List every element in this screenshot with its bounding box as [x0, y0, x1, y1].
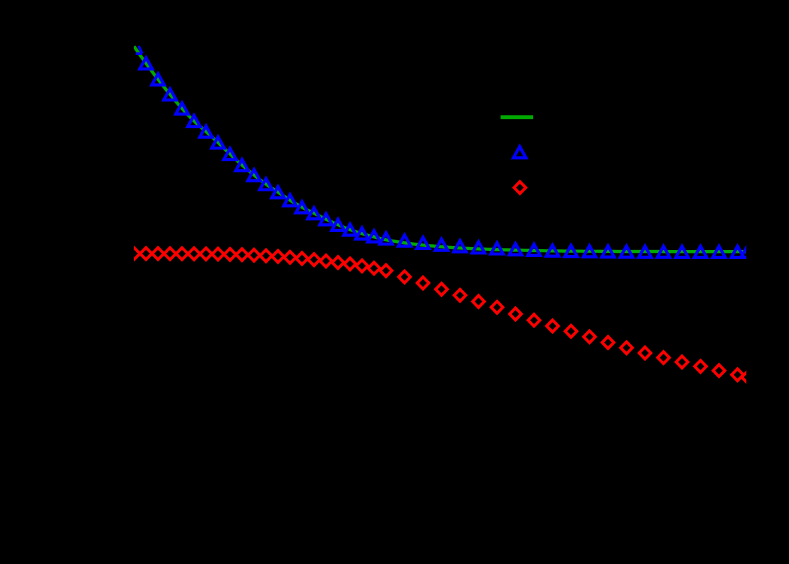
blue triangle marker 12: [260, 179, 273, 190]
blue triangle marker 8: [212, 137, 225, 148]
red diamond marker 42: [742, 371, 754, 383]
red diamond marker 3: [152, 248, 164, 260]
blue triangle marker 36: [639, 246, 652, 257]
legend blue triangle sample: [513, 147, 526, 158]
blue triangle marker 14: [284, 195, 297, 206]
red diamond marker 37: [658, 352, 670, 364]
red diamond marker 4: [164, 248, 176, 260]
red diamond marker 31: [547, 320, 559, 332]
blue triangle marker 32: [565, 245, 578, 256]
blue triangle marker 42: [741, 246, 754, 257]
blue triangle marker 20: [356, 228, 369, 239]
blue triangle marker 15: [296, 202, 309, 213]
red diamond marker 24: [417, 277, 429, 289]
blue triangle marker 4: [164, 89, 177, 100]
blue triangle marker 13: [272, 187, 285, 198]
blue triangle marker 7: [200, 126, 213, 137]
red diamond marker 40: [713, 365, 725, 377]
blue triangle marker 39: [694, 246, 707, 257]
red diamond marker 23: [399, 271, 411, 283]
legend red diamond sample: [514, 182, 526, 194]
red diamond marker 38: [676, 356, 688, 368]
blue triangle marker series: [136, 46, 754, 258]
blue triangle marker 23: [398, 235, 411, 246]
blue triangle marker 5: [176, 103, 189, 114]
red diamond marker 27: [473, 296, 485, 308]
blue triangle marker 40: [713, 246, 726, 257]
red diamond marker 11: [248, 249, 260, 261]
red diamond marker 10: [236, 249, 248, 261]
blue triangle marker 10: [236, 159, 249, 170]
red diamond marker 22: [380, 265, 392, 277]
blue triangle marker 35: [620, 246, 633, 257]
red diamond marker 29: [510, 308, 522, 320]
red diamond marker 39: [695, 360, 707, 372]
legend green line sample: [501, 115, 533, 119]
blue triangle marker 38: [676, 246, 689, 257]
blue triangle marker 33: [583, 246, 596, 257]
red diamond marker 6: [188, 248, 200, 260]
red diamond marker 34: [602, 337, 614, 349]
blue triangle marker 29: [509, 244, 522, 255]
red diamond marker 28: [491, 301, 503, 313]
blue triangle marker 31: [546, 245, 559, 256]
red diamond marker 1: [128, 248, 140, 260]
blue triangle marker 24: [417, 237, 430, 248]
blue triangle marker 26: [454, 241, 467, 252]
green curve: exact solution line: [134, 46, 746, 251]
blue triangle marker 16: [308, 208, 321, 219]
red diamond marker 8: [212, 248, 224, 260]
red diamond marker 41: [732, 369, 744, 381]
red diamond marker 36: [639, 347, 651, 359]
red diamond marker 19: [344, 258, 356, 270]
blue triangle marker 11: [248, 170, 261, 181]
blue triangle marker 21: [368, 231, 381, 242]
red diamond marker 21: [368, 262, 380, 274]
red diamond marker 13: [272, 250, 284, 262]
red diamond marker 5: [176, 248, 188, 260]
red diamond marker 33: [584, 331, 596, 343]
blue triangle marker 27: [472, 242, 485, 253]
blue triangle marker 9: [224, 148, 237, 159]
red diamond marker series: [128, 248, 753, 384]
red diamond marker 26: [454, 289, 466, 301]
blue triangle marker 6: [188, 115, 201, 126]
blue triangle marker 18: [332, 219, 345, 230]
red diamond marker 18: [332, 257, 344, 269]
red diamond marker 14: [284, 251, 296, 263]
red diamond marker 16: [308, 254, 320, 266]
red diamond marker 9: [224, 248, 236, 260]
blue triangle marker 1: [136, 46, 143, 54]
blue triangle marker 25: [435, 239, 448, 250]
red diamond marker 35: [621, 342, 633, 354]
red diamond marker 25: [436, 283, 448, 295]
blue triangle marker 28: [491, 243, 504, 254]
red diamond marker 15: [296, 252, 308, 264]
blue triangle marker 17: [320, 214, 333, 225]
red diamond marker 20: [356, 260, 368, 272]
blue triangle marker 22: [380, 233, 393, 244]
red diamond marker 30: [528, 314, 540, 326]
red diamond marker 17: [320, 255, 332, 267]
blue triangle marker 2: [140, 58, 153, 69]
blue triangle marker 3: [152, 74, 165, 85]
red diamond marker 2: [140, 248, 152, 260]
red diamond marker 12: [260, 250, 272, 262]
blue triangle marker 41: [731, 246, 744, 257]
red diamond marker 7: [200, 248, 212, 260]
blue triangle marker 34: [602, 246, 615, 257]
blue triangle marker 37: [657, 246, 670, 257]
red diamond marker 32: [565, 325, 577, 337]
blue triangle marker 30: [528, 244, 541, 255]
blue triangle marker 19: [344, 224, 357, 235]
